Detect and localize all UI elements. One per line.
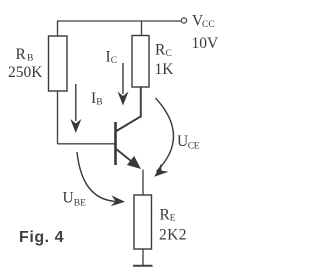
svg-text:250K: 250K	[8, 64, 43, 81]
svg-text:CC: CC	[202, 20, 215, 30]
svg-text:C: C	[166, 49, 172, 59]
svg-text:BE: BE	[74, 199, 86, 209]
svg-text:R: R	[155, 42, 166, 59]
svg-text:U: U	[63, 190, 74, 207]
svg-text:1K: 1K	[155, 61, 175, 78]
svg-text:B: B	[27, 54, 33, 64]
svg-text:R: R	[16, 46, 27, 63]
svg-text:2K2: 2K2	[159, 227, 187, 244]
svg-text:Fig. 4: Fig. 4	[19, 229, 64, 246]
svg-text:10V: 10V	[192, 35, 220, 52]
svg-text:E: E	[170, 214, 176, 224]
svg-text:C: C	[111, 56, 117, 66]
svg-text:CE: CE	[188, 142, 200, 152]
svg-text:B: B	[96, 98, 102, 108]
svg-text:U: U	[177, 133, 188, 150]
